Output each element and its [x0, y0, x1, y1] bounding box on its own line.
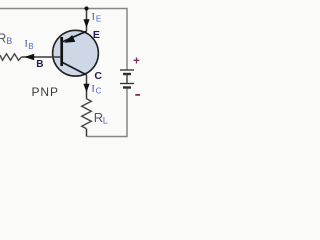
svg-text:L: L [103, 115, 108, 125]
svg-text:R: R [94, 110, 103, 125]
svg-text:B: B [28, 42, 33, 51]
svg-text:B: B [6, 36, 12, 46]
svg-text:I: I [25, 39, 28, 49]
svg-text:I: I [92, 84, 95, 94]
svg-text:C: C [94, 70, 102, 82]
svg-text:B: B [36, 59, 43, 70]
svg-text:PNP: PNP [32, 85, 59, 99]
svg-text:E: E [96, 15, 101, 24]
svg-text:+: + [133, 55, 140, 67]
svg-text:C: C [96, 87, 102, 96]
svg-text:I: I [92, 11, 95, 21]
svg-text:E: E [93, 29, 100, 41]
